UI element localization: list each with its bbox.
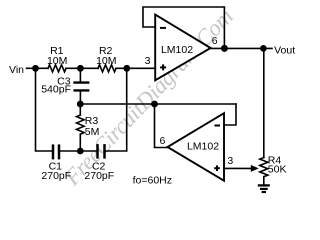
resistor R1 — [48, 65, 66, 72]
wire middle rail node C to elbow — [80, 103, 236, 105]
arrow head at R4 tap — [251, 165, 259, 172]
svg-text:270pF: 270pF — [84, 170, 114, 182]
wire Vin vertical down to C1 — [36, 68, 52, 151]
svg-text:540pF: 540pF — [41, 84, 71, 96]
node B — [123, 65, 130, 72]
minus sign U1 — [160, 27, 166, 29]
svg-text:Vin: Vin — [9, 64, 24, 76]
node C — [77, 101, 84, 108]
svg-text:10M: 10M — [96, 55, 116, 67]
plus sign U1 — [160, 64, 166, 70]
svg-text:6: 6 — [160, 135, 166, 147]
wire node D to C2 — [80, 150, 96, 152]
plus sign U2 — [214, 165, 220, 171]
svg-text:50K: 50K — [268, 164, 287, 176]
op-amp U1 — [155, 15, 210, 81]
wire R2 to op-amp U1 pin 3 — [116, 67, 155, 69]
capacitor C2 — [96, 144, 99, 159]
wire node C to R3 — [79, 104, 81, 115]
op-amp U2 — [168, 113, 225, 181]
minus sign U2 — [215, 125, 221, 127]
svg-text:LM102: LM102 — [187, 141, 219, 153]
wire R3 to node D — [79, 134, 81, 151]
ground — [258, 185, 270, 192]
svg-text:5M: 5M — [85, 126, 100, 138]
wire Vin lead — [27, 67, 36, 69]
wire C2 to elbow up to node B — [106, 68, 127, 151]
wire U1 feedback loop — [143, 7, 224, 48]
svg-text:fo=60Hz: fo=60Hz — [133, 175, 172, 187]
wire C3 to node C — [79, 92, 81, 105]
node D — [77, 148, 84, 155]
svg-text:Vout: Vout — [274, 44, 295, 56]
svg-text:LM102: LM102 — [161, 44, 193, 56]
resistor R4 — [260, 158, 268, 177]
wire node E down to U2 output apex — [155, 104, 168, 148]
wire Vout vertical to R4 — [263, 48, 265, 157]
capacitor C3 — [73, 81, 89, 83]
wire U2 pin 3 to R4 tap — [224, 167, 252, 169]
svg-text:3: 3 — [227, 155, 233, 167]
wire R1 to node A — [66, 67, 98, 69]
wire Vin dot to R1 — [36, 67, 49, 69]
wire elbow down to op-amp U2 inverting input — [224, 104, 236, 125]
wire C1 to node D — [60, 150, 80, 152]
svg-text:10M: 10M — [47, 55, 67, 67]
capacitor C1 — [52, 144, 55, 159]
wire R4 to ground — [263, 177, 265, 185]
svg-text:270pF: 270pF — [41, 170, 71, 182]
node U1 output — [221, 45, 228, 52]
wire U1 output to Vout — [211, 47, 272, 49]
svg-text:6: 6 — [212, 35, 218, 47]
svg-text:3: 3 — [145, 55, 151, 67]
wire node A down to C3 — [79, 68, 81, 81]
node Vout — [260, 45, 267, 52]
resistor R3 — [77, 115, 85, 134]
node Vin — [32, 65, 39, 72]
resistor R2 — [98, 65, 116, 72]
node E — [151, 101, 158, 108]
node A — [77, 65, 84, 72]
